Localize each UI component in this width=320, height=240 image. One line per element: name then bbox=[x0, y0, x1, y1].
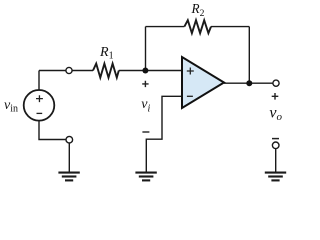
wire: inverting input step down to middle ground bbox=[146, 96, 182, 171]
lower-left terminal (open circle) bbox=[66, 136, 73, 143]
wire: top-left horizontal from corner through input terminal to R1 bbox=[39, 70, 93, 72]
wire: lower-right terminal down to right ground bbox=[275, 145, 277, 171]
wire: R1 right lead to node A bbox=[119, 70, 182, 72]
resistor R2 bbox=[184, 20, 211, 33]
v_o plus polarity mark bbox=[272, 93, 279, 100]
output terminal (open circle) bbox=[273, 80, 279, 86]
op-amp U1 bbox=[182, 57, 224, 108]
ground (right, below output) bbox=[265, 173, 286, 181]
ground (middle, inverting input reference) bbox=[135, 173, 156, 181]
v_i plus polarity mark bbox=[142, 81, 148, 87]
wire: node A up to feedback top rail bbox=[145, 27, 147, 71]
voltage source Vin bbox=[24, 90, 55, 121]
wire: feedback right vertical down to output node bbox=[248, 27, 250, 84]
lower-right terminal (open circle) bbox=[272, 142, 279, 149]
ground (left, below source) bbox=[58, 173, 79, 181]
wire: source bottom lead down and right to lower-left terminal bbox=[39, 121, 69, 140]
input terminal (open circle) bbox=[66, 67, 72, 73]
v_o minus polarity mark bbox=[272, 138, 279, 140]
resistor R1 bbox=[93, 64, 119, 78]
op-amp noninverting pin plus mark bbox=[187, 68, 194, 75]
source minus mark bbox=[37, 112, 43, 114]
wire: source top lead up from Vin to top-left corner bbox=[38, 71, 40, 91]
wire: lower-left terminal down to left ground bbox=[68, 140, 70, 172]
wire: op-amp output from apex to output terminal bbox=[224, 82, 276, 84]
output node junction dot bbox=[246, 80, 252, 86]
v_i minus polarity mark bbox=[142, 131, 149, 133]
node A junction dot (op-amp + input) bbox=[142, 68, 148, 74]
source plus mark bbox=[36, 95, 43, 102]
op-amp inverting pin minus mark bbox=[187, 95, 193, 97]
wire: top rail right segment from R2 to right corner bbox=[211, 26, 249, 28]
wire: top rail left segment to R2 bbox=[146, 26, 185, 28]
